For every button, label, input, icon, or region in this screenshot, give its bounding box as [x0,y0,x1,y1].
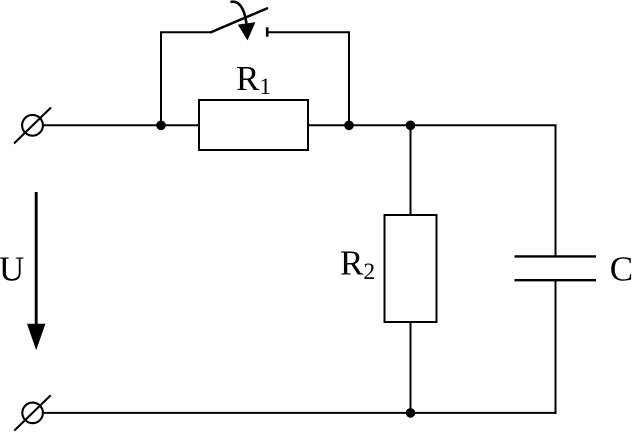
switch S1 blade (open, angled) [210,8,268,33]
terminal X2 (bottom input, circle with slash) [14,395,50,430]
capacitor C plates [515,256,597,280]
node dot: junction right of R1 [344,121,354,131]
terminal X1 (top input, circle with slash) [14,108,51,144]
wire: R2 bottom lead [410,321,412,413]
svg-text:R2: R2 [340,244,375,286]
switch S1 fixed contact tick [266,27,269,36]
wire: bottom rail from lower terminal to capacitor branch corner [42,412,557,414]
switch actuation curved arrow (closing direction) [231,2,256,41]
resistor R2 [385,215,437,322]
node dot: junction left of R1 [156,121,166,131]
svg-text:C: C [610,249,633,288]
wire: switch branch left riser and top-left segment [161,32,210,125]
resistor R1 [199,100,308,150]
wire: switch branch top-right segment and right riser [268,32,349,125]
wire: top rail from input terminal to capacitor branch corner [42,124,557,126]
voltage arrow U (pointing down) [27,192,45,350]
svg-text:R1: R1 [236,59,271,100]
wire: capacitor branch top vertical [555,124,557,256]
node dot: bottom of R2 branch [406,408,416,418]
node dot: top of R2 branch [406,121,416,131]
wire: R2 branch vertical (top lead) [410,125,412,216]
wire: capacitor branch bottom vertical [555,280,557,414]
svg-text:U: U [0,249,24,288]
